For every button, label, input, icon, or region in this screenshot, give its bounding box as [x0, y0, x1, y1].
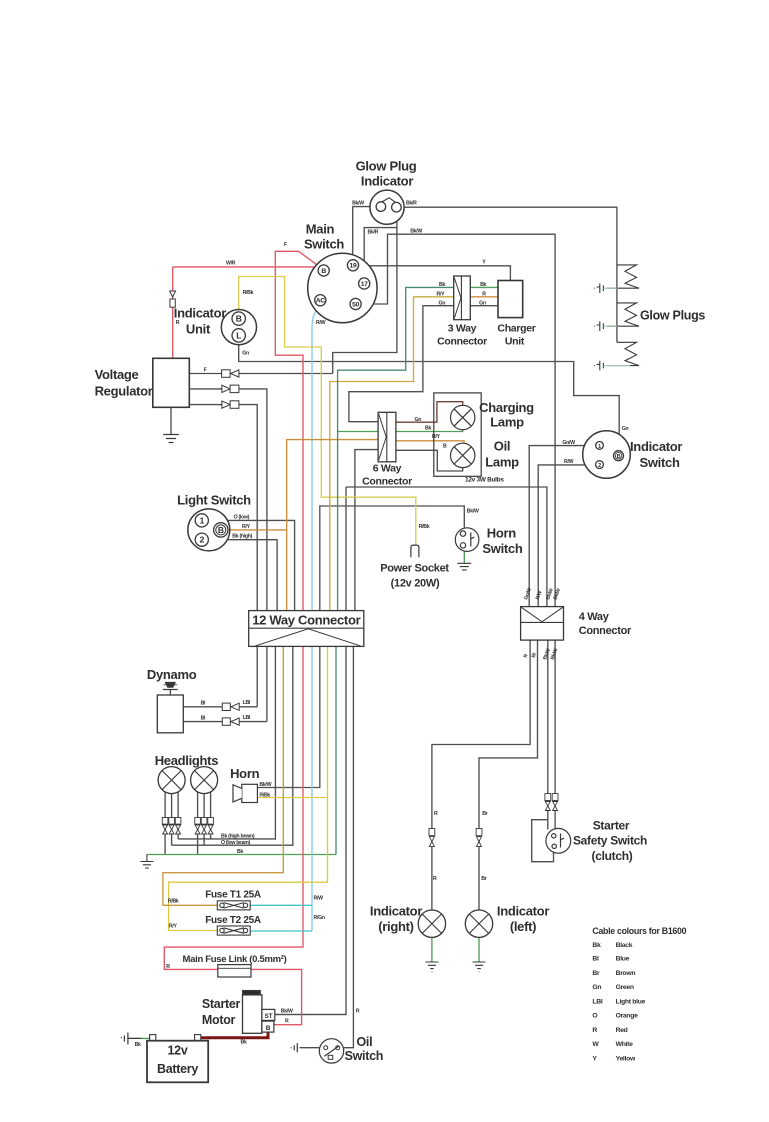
glow plug GP3 chassis terminal: [594, 361, 630, 371]
label Starter Motor: [202, 997, 241, 1027]
svg-text:1: 1: [200, 515, 205, 525]
label Voltage Regulator: [95, 367, 153, 399]
svg-text:Br: Br: [482, 811, 487, 817]
wire charging lamp bottom stem: [462, 430, 464, 432]
svg-text:Main Fuse Link (0.5mm²): Main Fuse Link (0.5mm²): [183, 954, 287, 965]
svg-text:Br: Br: [481, 876, 486, 882]
svg-text:Br: Br: [592, 970, 600, 977]
TEXT-LAYER: [95, 159, 706, 1077]
svg-text:Voltage: Voltage: [95, 367, 139, 382]
svg-text:Motor: Motor: [202, 1013, 236, 1027]
svg-text:White: White: [616, 1041, 634, 1048]
wire voltage regulator ground stem: [170, 407, 172, 434]
wire red F main switch B diagonal to 12way wire6 red: [275, 251, 320, 610]
wire headlight1 three tails: [164, 792, 166, 855]
dynamo pin2 connector symbol: [222, 718, 239, 725]
svg-text:Unit: Unit: [505, 336, 525, 348]
rotated labels 4 way bottom: [523, 647, 560, 660]
svg-text:Main: Main: [306, 222, 335, 237]
svg-text:R: R: [176, 320, 180, 326]
svg-text:Brown: Brown: [616, 970, 636, 977]
svg-text:R: R: [482, 291, 486, 297]
svg-text:O (low beam): O (low beam): [221, 840, 251, 846]
charging lamp DS1: [451, 405, 475, 429]
svg-text:W/R: W/R: [226, 261, 236, 267]
wire Br 4-way out2 down to left indicator lamp: [479, 640, 538, 910]
svg-text:Horn: Horn: [487, 526, 516, 541]
svg-text:Yellow: Yellow: [616, 1055, 636, 1062]
ground symbol below left indicator: [473, 962, 486, 972]
left indicator lamp connector symbol: [476, 829, 482, 847]
voltage regulator pin3 connector symbol: [220, 401, 239, 409]
headlight connector stack symbols: [162, 818, 213, 835]
wire cyan R/Gn fuse T2 output: [250, 930, 312, 932]
wire orange R/Y 6-way pin3 right to oil lamp top: [396, 441, 464, 444]
wire R 4-way out1 down to right indicator lamp: [432, 640, 530, 910]
main switch U1: [308, 253, 377, 322]
svg-text:Headlights: Headlights: [155, 753, 219, 768]
svg-text:AC: AC: [316, 298, 326, 305]
wire O(low) light switch pin1 to 12way wire5 and down to headlights low beam: [208, 520, 294, 610]
voltage regulator pin2 connector symbol: [220, 385, 239, 393]
svg-text:Red: Red: [616, 1027, 628, 1034]
svg-text:B: B: [266, 1025, 271, 1032]
wire Gn/W 4-way pin1 up and right to indicator switch pin1: [529, 446, 596, 607]
oil lamp DS2: [451, 443, 475, 467]
wire green left indicator lamp ground stem: [478, 937, 480, 962]
svg-text:Switch: Switch: [304, 237, 344, 252]
wire Bk/W long mid horizontal to 4-way pin3: [346, 487, 547, 607]
WIRES-LAYER: [142, 207, 620, 1048]
svg-text:Light Switch: Light Switch: [177, 493, 251, 508]
right indicator lamp L3: [418, 910, 445, 937]
wire green 6-way pin2 to charging lamp bottom: [338, 431, 463, 433]
svg-text:(right): (right): [378, 919, 413, 934]
svg-text:W: W: [592, 1041, 599, 1048]
svg-text:Bk/W: Bk/W: [281, 1008, 293, 1014]
svg-text:Safety Switch: Safety Switch: [573, 834, 647, 848]
battery terminal posts: [150, 1035, 156, 1041]
svg-text:ST: ST: [265, 1013, 273, 1020]
wire Bk/W 12way wire11 down to starter motor ST: [275, 487, 346, 1015]
svg-text:Gn: Gn: [439, 300, 446, 306]
label Indicator (right): [370, 904, 422, 935]
svg-text:LBl: LBl: [243, 700, 251, 706]
svg-text:R/Bk: R/Bk: [259, 792, 270, 798]
svg-text:Starter: Starter: [593, 819, 630, 833]
wire green battery negative lead: [142, 1037, 150, 1039]
svg-text:F: F: [204, 367, 207, 373]
svg-text:B: B: [321, 268, 326, 275]
wire orange R/Y 6-way pin3 bus to light switch B and 12way wire4: [287, 440, 378, 611]
wire Gn 3-way pin3 right to charger (gray): [470, 305, 498, 307]
dynamo G1: [157, 682, 183, 733]
svg-text:2: 2: [200, 535, 205, 545]
ground symbol left of headlights earth line: [140, 855, 153, 869]
svg-text:(12v 20W): (12v 20W): [391, 578, 440, 590]
glow plug GP1 coil: [607, 265, 639, 288]
label Glow Plug Indicator: [356, 159, 417, 189]
svg-text:Battery: Battery: [157, 1062, 198, 1076]
wire oil switch left stub: [300, 1047, 320, 1049]
svg-text:Bk: Bk: [135, 1042, 141, 1048]
svg-text:Gn: Gn: [592, 984, 601, 991]
wire R 3-way pin2 right to charger (orange): [470, 296, 498, 298]
svg-text:Gn: Gn: [242, 351, 249, 357]
label Indicator (left): [497, 904, 549, 935]
wire F voltage-regulator pin1 to connector: [190, 373, 333, 375]
svg-text:Glow Plug: Glow Plug: [356, 159, 417, 174]
wire Bk 3-way pin1 right to charger (green): [470, 286, 498, 288]
svg-text:R: R: [285, 1019, 289, 1025]
svg-text:R/Y: R/Y: [432, 434, 441, 440]
svg-text:Bl: Bl: [592, 956, 599, 963]
svg-text:Starter: Starter: [202, 997, 241, 1011]
svg-text:Bk/R: Bk/R: [406, 200, 417, 206]
svg-text:Bk: Bk: [425, 426, 431, 432]
wire yellow R/Bk 12way wire9 down to horn and fuse T2: [169, 646, 328, 930]
wire lightblue R/W main switch AC down to 12way wire7: [312, 305, 319, 611]
svg-text:4 Way: 4 Way: [579, 611, 610, 623]
label 4 Way Connector: [579, 611, 632, 637]
label Indicator Unit: [174, 306, 226, 337]
svg-text:Indicator: Indicator: [370, 904, 422, 919]
dynamo pin1 connector symbol: [222, 703, 239, 710]
headlight lamp L2: [191, 767, 218, 794]
wire Gn 3-way connector pin3 to 6-way connector pin1: [349, 306, 454, 422]
svg-text:Bk/R: Bk/R: [368, 229, 379, 235]
wire lightblue 12way wire7 down to fuses T1 T2: [311, 646, 313, 931]
voltage regulator VR1: [153, 358, 190, 407]
svg-text:Fuse T2 25A: Fuse T2 25A: [205, 915, 261, 926]
svg-text:R/Bk: R/Bk: [243, 290, 254, 296]
svg-text:Oil: Oil: [357, 1035, 373, 1049]
label 3 Way Connector: [437, 323, 487, 348]
12 way connector J12: [249, 611, 364, 647]
svg-text:F: F: [284, 242, 287, 248]
horn H1: [233, 784, 257, 802]
label Light Switch: [177, 493, 251, 508]
voltage regulator pin1 connector symbol: [222, 370, 241, 378]
lamp bracket around charging and oil lamps: [434, 393, 481, 476]
headlight lamp L1: [158, 767, 185, 794]
wire teal Bk 3-way pin1 to 12way wire10 with branch to 6-way pin2: [338, 287, 454, 610]
svg-text:LBl: LBl: [592, 998, 602, 1005]
svg-text:R: R: [434, 811, 438, 817]
wire starter safety switch clutch loop: [532, 820, 554, 862]
wire voltage-regulator pin3 to 12way wire1: [190, 405, 257, 611]
tiny wire labels: [135, 200, 629, 1048]
svg-text:Bk: Bk: [592, 942, 601, 949]
label 6 Way Connector: [362, 463, 412, 488]
svg-text:Glow Plugs: Glow Plugs: [640, 309, 705, 323]
svg-text:Charger: Charger: [497, 323, 535, 335]
wire Bk/W 4-way out4 down to starter safety switch: [554, 640, 556, 830]
rotated labels 4 way top: [523, 587, 562, 601]
ground symbol below right indicator: [425, 962, 438, 972]
safety switch connector symbol 1: [545, 794, 551, 811]
svg-text:Switch: Switch: [482, 541, 522, 556]
wire Bk/W glow-indicator left pin to main switch terminal 19: [353, 207, 381, 261]
label Main Switch: [304, 222, 344, 252]
svg-text:Charging: Charging: [479, 400, 534, 415]
svg-text:12 Way Connector: 12 Way Connector: [252, 613, 360, 628]
svg-text:Bk (high): Bk (high): [232, 534, 252, 540]
right indicator lamp connector symbol: [429, 829, 435, 847]
wire maroon Gn 6-way pin1 to charging lamp top: [396, 402, 463, 423]
wire Bk/R glow-indicator right pin to glow plug bus: [396, 207, 617, 342]
svg-text:R/Gn: R/Gn: [314, 915, 325, 921]
glow plug bus and coils GP1 GP2 GP3: [607, 265, 639, 366]
wire R/W 4-way pin2 up and right to indicator switch pin2: [538, 465, 596, 607]
wire red 12way wire6 down to main fuse link loop and starter B: [164, 646, 303, 1024]
svg-text:Switch: Switch: [345, 1049, 383, 1063]
svg-text:Switch: Switch: [640, 455, 680, 470]
svg-text:R/W: R/W: [316, 320, 326, 326]
label Oil Switch: [345, 1035, 383, 1063]
svg-text:Horn: Horn: [230, 766, 259, 781]
glow plug indicator GPI: [370, 190, 404, 224]
svg-text:Gn: Gn: [415, 417, 422, 423]
wire Y main switch 19 to charger unit top: [358, 266, 511, 281]
wire yellow R/Bk indicator unit B to power socket: [239, 277, 416, 546]
svg-text:Bk: Bk: [237, 849, 243, 855]
svg-text:1: 1: [598, 444, 601, 450]
svg-text:R/Bk: R/Bk: [168, 898, 179, 904]
svg-text:Connector: Connector: [437, 336, 487, 348]
wire Gn indicator-unit L to indicator switch B: [239, 343, 620, 451]
svg-text:Oil: Oil: [494, 439, 510, 454]
wire red W/R main switch B to voltage regulator top: [173, 266, 320, 268]
svg-text:O (low): O (low): [234, 514, 250, 520]
label Horn Switch: [482, 526, 522, 556]
light switch S1: [188, 509, 230, 551]
svg-text:Black: Black: [616, 942, 633, 949]
label Oil Lamp: [485, 439, 519, 470]
wire olive R/Bk 12way wire4 down to fuse T1: [163, 640, 287, 905]
svg-text:L: L: [236, 330, 241, 340]
svg-text:Dynamo: Dynamo: [147, 667, 197, 682]
wire Bk/W 4-way out3 down to starter safety switch: [547, 640, 549, 829]
svg-text:R/Bk: R/Bk: [419, 524, 430, 530]
svg-text:3 Way: 3 Way: [448, 323, 477, 335]
wire horn switch ground stem: [463, 551, 465, 563]
fuse T1 F1: [217, 901, 250, 910]
svg-text:B: B: [443, 443, 447, 449]
svg-text:B: B: [617, 454, 621, 460]
svg-text:Indicator: Indicator: [630, 439, 682, 454]
wire Bk 6-way pin4 right to oil lamp bottom: [396, 450, 463, 471]
glow plug GP1 chassis terminal: [594, 283, 617, 293]
left indicator lamp L4: [465, 910, 492, 937]
wire cyan R/W fuse T1 output: [250, 904, 312, 906]
label Charger Unit: [497, 323, 535, 348]
svg-text:Bk: Bk: [480, 282, 486, 288]
svg-text:Light blue: Light blue: [616, 998, 646, 1005]
connector symbol on W/R wire near indicator unit: [170, 291, 176, 307]
label Charging Lamp: [479, 400, 534, 430]
wire thick battery cable starter B to battery positive: [200, 1030, 269, 1038]
wire Bk/W main switch 50 to 4 way connector pin4: [360, 234, 555, 606]
svg-text:Bk/W: Bk/W: [410, 229, 422, 235]
wire Bk/R glow-indicator bottom pin down, branch to terminal 17, then to voltage regulator pin F: [333, 211, 397, 373]
svg-text:12v 3W Bulbs: 12v 3W Bulbs: [465, 477, 504, 484]
svg-text:Connector: Connector: [579, 625, 632, 637]
wire Bl/LBl dynamo pin1 to 12way wire1: [183, 706, 257, 708]
starter safety switch S5: [546, 828, 571, 853]
wire green right indicator lamp ground stem: [431, 937, 433, 962]
wire Bk(high) light switch pin2 to 12way wire3 and down to headlights high beam: [208, 540, 277, 611]
svg-text:Regulator: Regulator: [95, 384, 153, 399]
4 way connector J4: [521, 607, 564, 641]
legend cable colours for B1600: [592, 926, 686, 1062]
svg-text:Bk (high beam): Bk (high beam): [221, 834, 255, 840]
ground symbol below horn switch: [457, 563, 471, 570]
glow plug GP2 chassis terminal: [594, 321, 617, 331]
power socket PS1: [411, 545, 419, 557]
svg-text:Indicator: Indicator: [174, 306, 226, 321]
wire Bk/W horn switch to 12way wire8 and down to horn: [320, 506, 465, 611]
indicator unit FL1: [221, 310, 256, 345]
svg-text:Orange: Orange: [616, 1013, 639, 1020]
svg-text:12v: 12v: [168, 1044, 188, 1058]
svg-text:Indicator: Indicator: [497, 904, 549, 919]
main switch terminal letters: [316, 263, 369, 309]
wire Bk earth line headlights to teal 12way wire10: [147, 854, 336, 856]
svg-text:Bk: Bk: [241, 1039, 247, 1045]
svg-text:R: R: [433, 876, 437, 882]
svg-text:Bk/W: Bk/W: [352, 200, 364, 206]
6 way connector J6: [378, 412, 396, 462]
svg-text:2: 2: [598, 463, 601, 469]
svg-text:Gn: Gn: [479, 300, 486, 306]
charger unit CU1: [498, 281, 523, 318]
wire Bl/LBl dynamo pin2 to 12way wire2: [183, 721, 267, 723]
svg-text:6 Way: 6 Way: [373, 463, 402, 475]
svg-text:R/Y: R/Y: [242, 524, 251, 530]
glow plug GP2 coil: [607, 303, 639, 326]
wire Bk/W starter motor ST right to 12way wire11: [275, 1014, 346, 1016]
indicator switch S2: [583, 431, 631, 479]
main fuse link F3: [218, 965, 251, 977]
label Power Socket (12v 20W): [380, 563, 449, 590]
svg-text:R: R: [356, 1008, 360, 1014]
svg-text:19: 19: [350, 263, 357, 270]
svg-text:Power Socket: Power Socket: [380, 563, 449, 575]
svg-text:Bk/W: Bk/W: [467, 509, 479, 515]
svg-text:Gn: Gn: [622, 426, 629, 432]
svg-text:R/Y: R/Y: [169, 924, 178, 930]
battery chassis symbol left: [121, 1033, 142, 1045]
svg-text:R/Y: R/Y: [437, 291, 446, 297]
3 way connector J3: [454, 276, 471, 320]
ground symbol below voltage regulator: [163, 435, 179, 443]
svg-text:LBl: LBl: [243, 715, 251, 721]
svg-text:Indicator: Indicator: [361, 174, 413, 189]
COMPONENTS-LAYER: [121, 190, 639, 1082]
svg-text:R: R: [166, 964, 170, 970]
label Glow Plugs: [640, 309, 705, 323]
svg-text:Gn/W: Gn/W: [562, 440, 575, 446]
svg-text:Bk/W: Bk/W: [259, 782, 271, 788]
svg-text:17: 17: [361, 281, 368, 288]
safety switch connector symbol 2: [552, 794, 558, 811]
svg-text:Lamp: Lamp: [490, 415, 524, 430]
svg-text:R/W: R/W: [314, 896, 324, 902]
svg-text:Lamp: Lamp: [485, 455, 519, 470]
svg-text:Connector: Connector: [362, 476, 412, 488]
wire headlight2 three tails: [197, 792, 199, 855]
svg-text:Fuse T1 25A: Fuse T1 25A: [205, 890, 261, 901]
svg-text:Unit: Unit: [186, 322, 211, 337]
battery B1: [147, 1041, 208, 1083]
wire olive R/Y 3-way pin2 to 12way wire9: [330, 297, 454, 611]
svg-text:B: B: [218, 525, 224, 535]
horn switch S3: [455, 528, 479, 552]
starter motor M1: [243, 991, 275, 1034]
wire voltage-regulator pin2 to 12way wire2: [190, 389, 267, 611]
oil switch chassis symbol left: [291, 1043, 297, 1052]
svg-text:Blue: Blue: [616, 956, 630, 963]
svg-text:50: 50: [352, 301, 359, 308]
svg-text:Bk: Bk: [439, 282, 445, 288]
wire Bk 6-way pin4 left to 12way wire12 and down to oil switch: [355, 450, 378, 611]
svg-text:R/W: R/W: [564, 459, 574, 465]
svg-text:Cable colours for B1600: Cable colours for B1600: [592, 926, 686, 936]
svg-text:Green: Green: [616, 984, 634, 991]
glow plug GP3 coil: [607, 342, 639, 365]
svg-text:O: O: [592, 1013, 597, 1020]
svg-text:(clutch): (clutch): [592, 849, 633, 863]
label Indicator Switch: [630, 439, 682, 470]
svg-text:B: B: [236, 314, 242, 324]
svg-text:R: R: [592, 1027, 597, 1034]
oil switch S4: [319, 1039, 343, 1063]
label 12v Battery: [157, 1044, 198, 1077]
fuse T2 F2: [217, 926, 250, 935]
svg-text:(left): (left): [510, 919, 536, 934]
label Starter Safety Switch (clutch): [573, 819, 647, 864]
